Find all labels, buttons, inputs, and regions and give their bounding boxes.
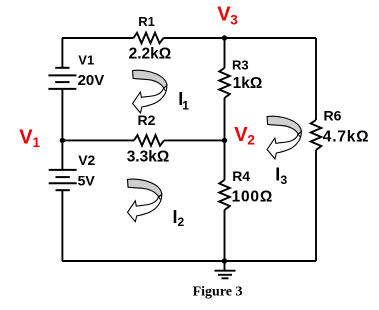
- svg-text:V1: V1: [78, 52, 94, 67]
- wire middle vertical (R4 to ground node): [224, 210, 226, 261]
- resistor R6 zigzag: [311, 120, 322, 150]
- ground node junction dot: [222, 258, 227, 263]
- svg-text:V: V: [234, 124, 248, 146]
- wire left vertical lower (V2 to bottom): [61, 190, 63, 261]
- node V1 junction dot: [60, 138, 65, 143]
- loop arrow I1: [133, 70, 167, 113]
- svg-text:3.3kΩ: 3.3kΩ: [127, 148, 170, 165]
- svg-text:R1: R1: [138, 14, 155, 29]
- svg-text:1: 1: [33, 135, 41, 150]
- loop arrow I2: [128, 179, 162, 222]
- wire right vertical upper: [315, 38, 317, 120]
- svg-text:R6: R6: [324, 107, 342, 123]
- wire left vertical (V1 to node V1): [61, 89, 63, 140]
- wire middle vertical (R3 to R4): [224, 98, 226, 180]
- ground: [215, 261, 236, 278]
- svg-text:5V: 5V: [78, 173, 96, 189]
- svg-text:2: 2: [178, 215, 185, 229]
- svg-text:2.2kΩ: 2.2kΩ: [129, 46, 172, 63]
- wire left vertical upper (to V1): [61, 38, 63, 68]
- battery V1: [48, 68, 76, 89]
- wire middle vertical (V3 node to R3): [224, 38, 226, 68]
- svg-text:I: I: [275, 165, 280, 185]
- svg-text:V2: V2: [78, 152, 95, 168]
- resistor R4 zigzag: [219, 180, 230, 210]
- wire middle horizontal left (node V1 to R2): [62, 139, 134, 141]
- svg-text:3: 3: [230, 12, 238, 27]
- svg-text:100Ω: 100Ω: [232, 189, 274, 206]
- resistor R3 zigzag: [219, 68, 230, 98]
- svg-text:20V: 20V: [78, 72, 105, 89]
- svg-text:1: 1: [182, 98, 189, 112]
- svg-text:Figure 3: Figure 3: [193, 284, 243, 299]
- resistor R1 zigzag: [134, 33, 164, 44]
- wire right vertical lower: [315, 150, 317, 261]
- node V2 junction dot: [222, 138, 227, 143]
- svg-text:R2: R2: [138, 112, 156, 128]
- svg-text:V: V: [19, 127, 33, 149]
- wire top right horizontal: [164, 37, 317, 39]
- svg-text:V: V: [217, 4, 231, 26]
- svg-text:2: 2: [247, 133, 255, 148]
- svg-text:3: 3: [281, 173, 288, 187]
- svg-text:R3: R3: [232, 58, 249, 73]
- resistor R2 zigzag: [134, 135, 164, 146]
- svg-text:4.7kΩ: 4.7kΩ: [323, 128, 370, 145]
- wire left vertical (node V1 to V2): [61, 140, 63, 170]
- svg-text:R4: R4: [232, 168, 250, 184]
- wire middle horizontal right (R2 to node V2): [164, 139, 225, 141]
- wire top left horizontal: [62, 37, 134, 39]
- svg-text:1kΩ: 1kΩ: [233, 75, 263, 92]
- loop arrow I3: [267, 116, 301, 159]
- wire bottom horizontal: [62, 260, 316, 262]
- battery V2: [49, 170, 77, 190]
- node V3 junction dot: [222, 35, 227, 40]
